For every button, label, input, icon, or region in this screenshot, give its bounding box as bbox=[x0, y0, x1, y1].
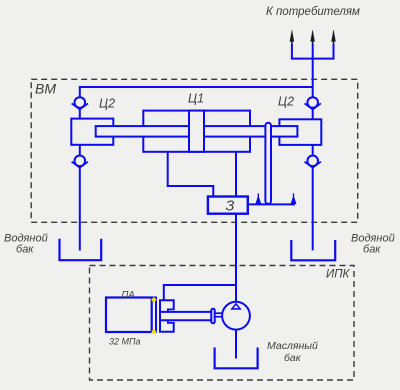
valve Z body bbox=[208, 197, 248, 214]
accumulator piston plate bbox=[152, 298, 156, 333]
enclosure IPK dashed box bbox=[90, 266, 355, 381]
wire valve to cylinder C2 right bbox=[312, 108, 314, 120]
svg-text:бак: бак bbox=[363, 244, 381, 256]
booster rod bbox=[161, 312, 212, 320]
svg-text:Ц2: Ц2 bbox=[278, 95, 294, 109]
consumer outlet arrow 2 bbox=[311, 30, 315, 44]
yellow marker top bbox=[151, 297, 157, 303]
wire C2 left to bottom valve bbox=[79, 145, 81, 156]
wire valve Z to pump bbox=[235, 214, 237, 303]
check valve top-right bbox=[305, 97, 321, 109]
booster piston cap bottom bbox=[168, 320, 175, 323]
piston rod right segment bbox=[204, 126, 297, 137]
cylinder C1 body bbox=[143, 111, 250, 152]
svg-text:ИПК: ИПК bbox=[326, 269, 351, 281]
water tank right bbox=[291, 240, 335, 260]
svg-text:К потребителям: К потребителям bbox=[266, 6, 360, 18]
feedback link capsule bbox=[265, 123, 271, 204]
stop arrow left bbox=[256, 193, 261, 203]
cylinder C2 right body bbox=[279, 119, 321, 145]
svg-text:ПА: ПА bbox=[122, 289, 135, 300]
wire consumer manifold bbox=[291, 44, 335, 59]
wire C2 right to bottom valve bbox=[312, 145, 314, 156]
yellow marker bottom bbox=[151, 329, 157, 335]
check valve top-left bbox=[72, 97, 88, 109]
consumer outlet arrow 1 bbox=[290, 30, 294, 44]
check valve bottom-left bbox=[72, 156, 88, 168]
cylinder C2 left body bbox=[71, 119, 113, 145]
feedback lever wire bbox=[248, 203, 295, 205]
wire manifold down to right valve column bbox=[312, 44, 314, 98]
wire control branch down bbox=[163, 284, 165, 300]
wire to right water tank bbox=[312, 166, 314, 250]
piston C1 bbox=[189, 111, 204, 152]
svg-text:Ц2: Ц2 bbox=[99, 97, 115, 111]
wire C1 left chamber to valve Z bbox=[168, 152, 214, 197]
piston rod left segment bbox=[96, 126, 189, 137]
accumulator PA body bbox=[106, 298, 152, 333]
pump flow triangle bbox=[232, 304, 240, 309]
svg-text:З: З bbox=[226, 199, 235, 215]
wire control branch horizontal bbox=[164, 284, 236, 286]
enclosure BM dashed box bbox=[31, 79, 358, 222]
svg-text:32 МПа: 32 МПа bbox=[109, 337, 141, 347]
water tank left bbox=[60, 239, 102, 261]
check valve bottom-right bbox=[305, 156, 321, 168]
svg-text:Масляный: Масляный bbox=[267, 340, 318, 352]
coupling hub bbox=[215, 313, 222, 317]
consumer outlet arrow 3 bbox=[332, 30, 336, 44]
booster cylinder body bbox=[160, 300, 174, 331]
pump U1 bbox=[222, 302, 250, 330]
svg-text:бак: бак bbox=[284, 352, 302, 364]
wire down to top-left valve bbox=[79, 86, 81, 97]
stop arrow right bbox=[291, 193, 296, 203]
booster piston cap top bbox=[168, 309, 175, 312]
coupling flange bar bbox=[211, 309, 214, 323]
wire top cross line bbox=[80, 86, 313, 88]
wire to left water tank bbox=[79, 166, 81, 251]
wire valve to cylinder C2 left bbox=[79, 108, 81, 119]
svg-text:бак: бак bbox=[16, 244, 34, 256]
svg-text:ВМ: ВМ bbox=[35, 81, 56, 97]
svg-text:Ц1: Ц1 bbox=[188, 92, 204, 106]
oil tank bbox=[215, 348, 258, 369]
wire pump to oil tank bbox=[235, 330, 237, 359]
wire C1 right chamber to valve Z bbox=[235, 152, 237, 197]
